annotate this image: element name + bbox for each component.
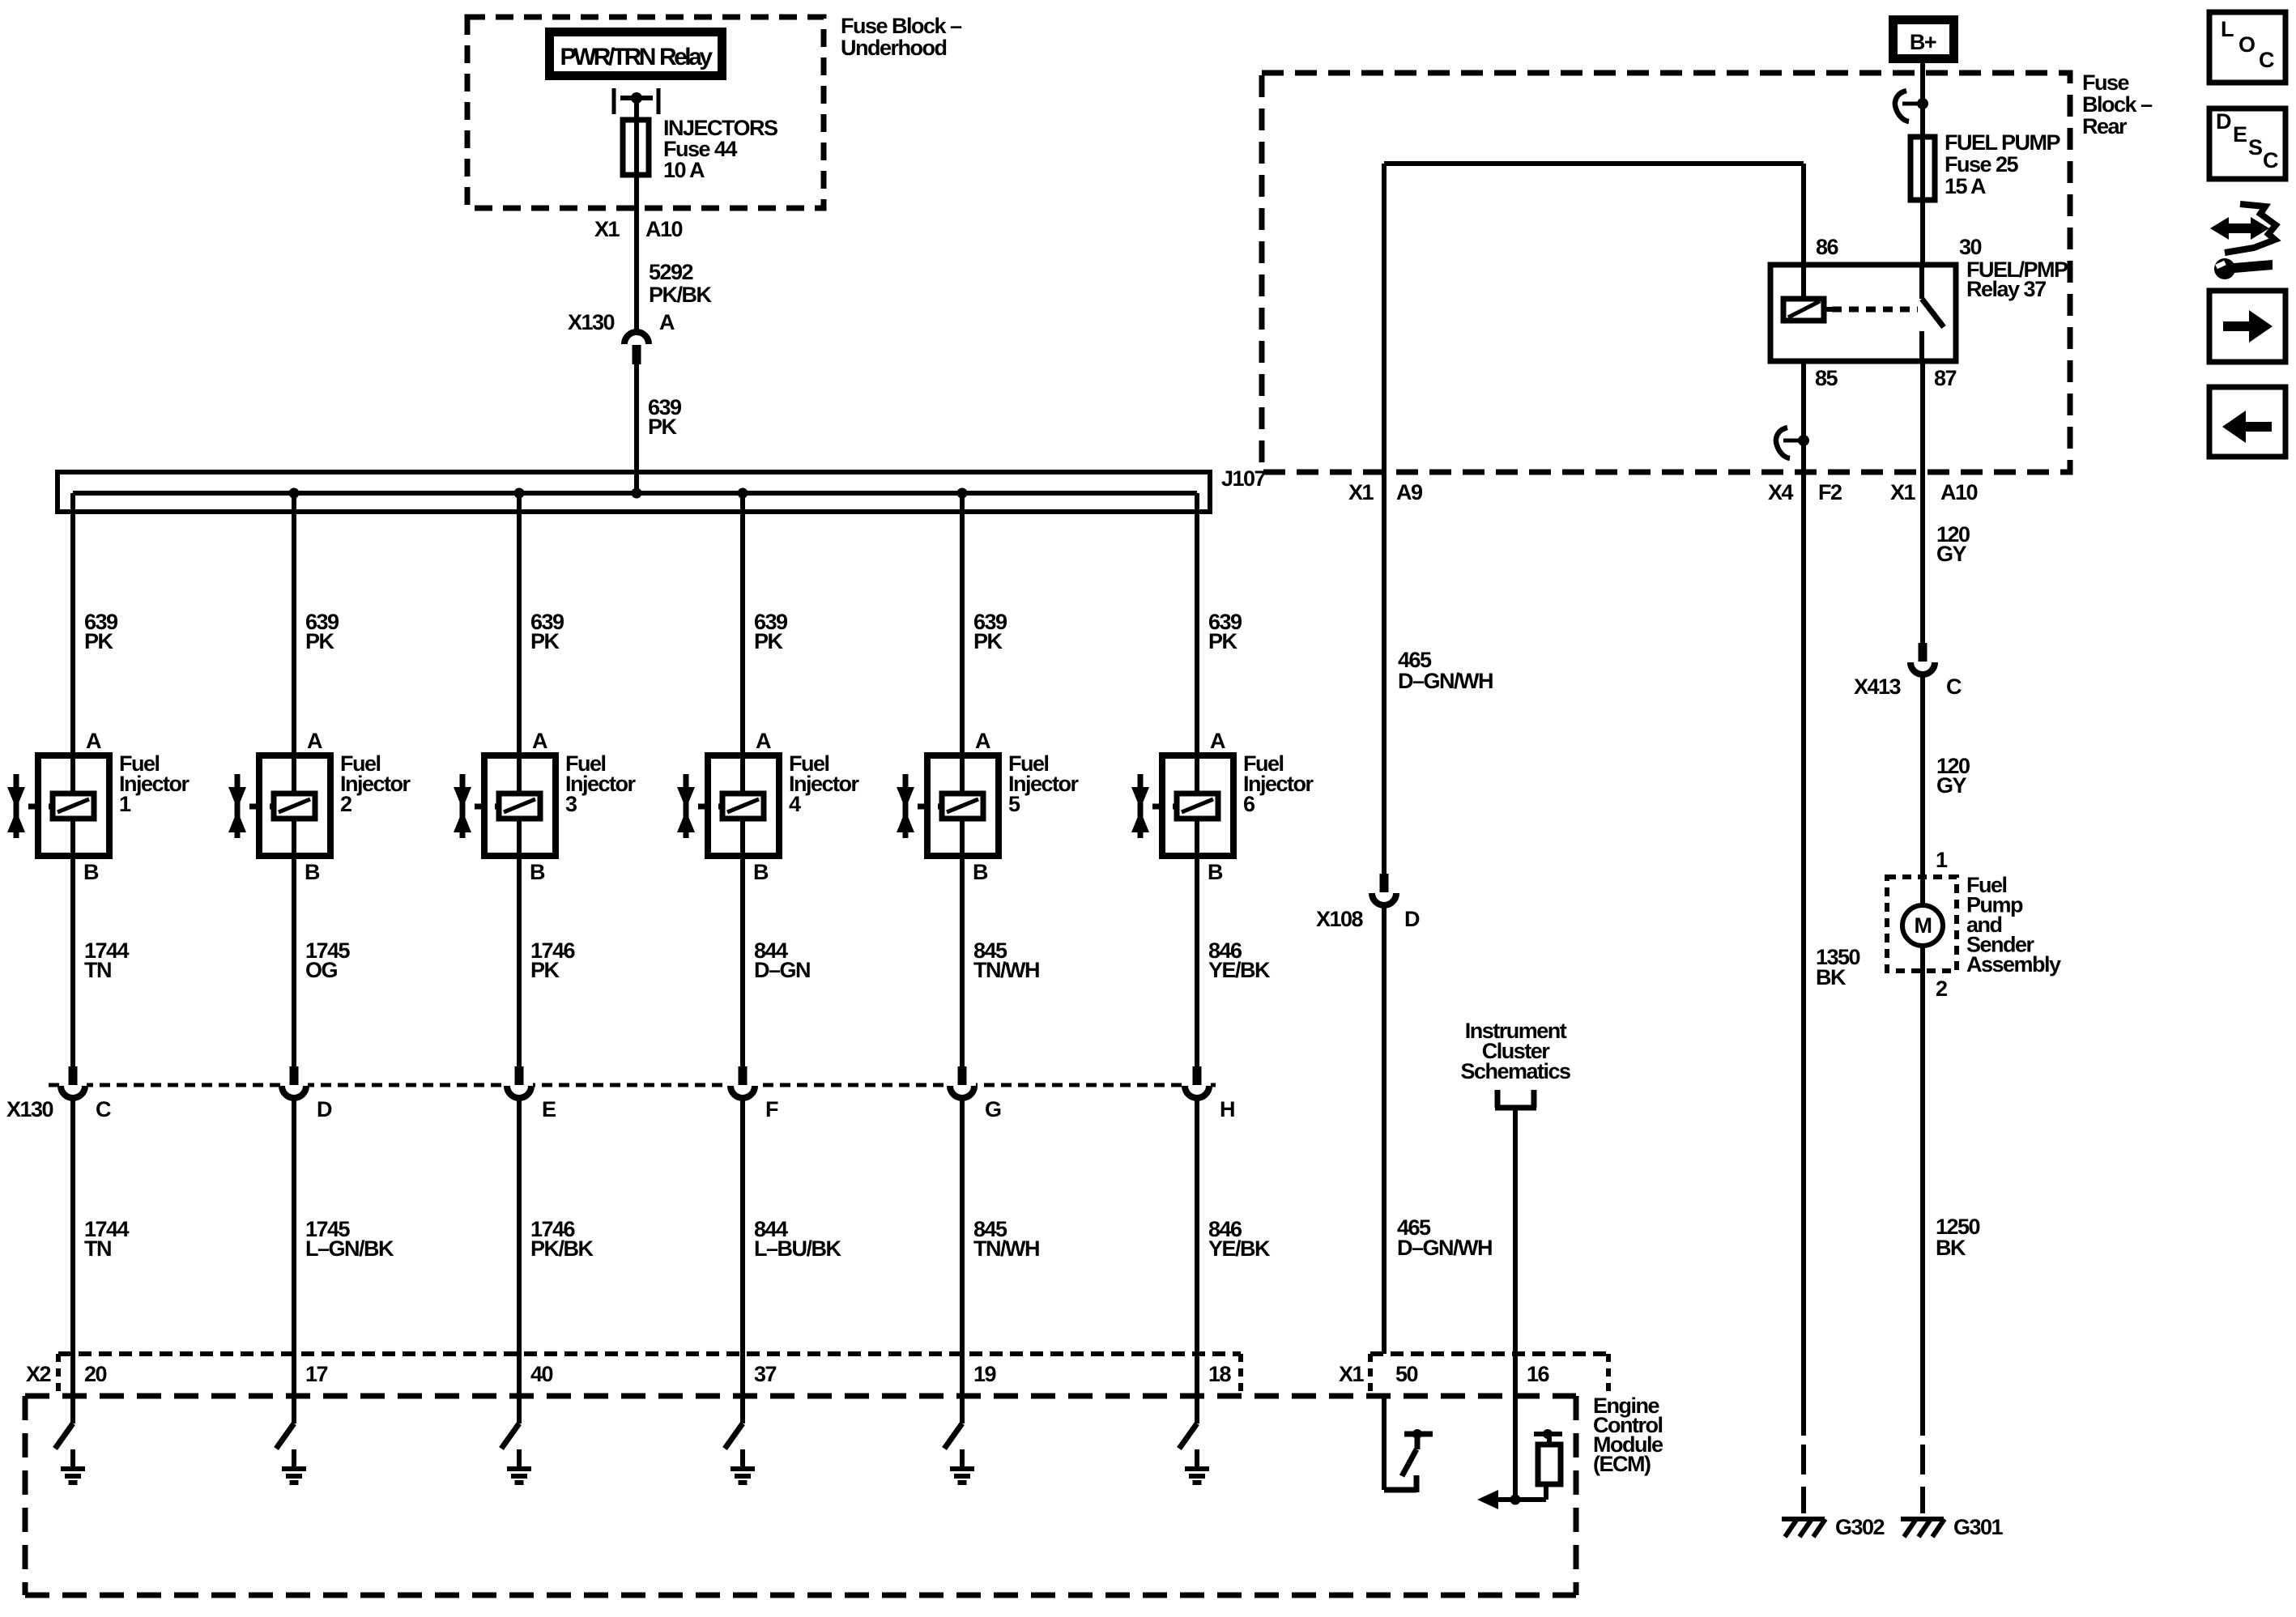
svg-text:B: B	[1208, 860, 1223, 884]
svg-text:B: B	[83, 860, 99, 884]
svg-text:B: B	[753, 860, 769, 884]
svg-text:30: 30	[1959, 235, 1982, 259]
svg-text:C: C	[96, 1097, 111, 1121]
svg-text:X130: X130	[6, 1097, 53, 1121]
svg-text:F2: F2	[1818, 480, 1842, 504]
svg-text:E: E	[542, 1097, 556, 1121]
svg-text:40: 40	[530, 1362, 553, 1386]
svg-text:120GY: 120GY	[1936, 522, 1970, 566]
svg-text:X130: X130	[568, 310, 615, 334]
svg-text:X4: X4	[1768, 480, 1794, 504]
svg-text:A: A	[86, 729, 101, 753]
svg-text:X2: X2	[26, 1362, 51, 1386]
svg-text:120GY: 120GY	[1936, 754, 1970, 798]
svg-text:G: G	[985, 1097, 1001, 1121]
svg-text:85: 85	[1815, 366, 1838, 390]
svg-text:G301: G301	[1953, 1515, 2004, 1539]
svg-text:E: E	[2233, 122, 2247, 147]
svg-text:M: M	[1915, 913, 1932, 938]
svg-text:F: F	[765, 1097, 778, 1121]
svg-text:B: B	[530, 860, 545, 884]
svg-text:X1: X1	[1339, 1362, 1365, 1386]
svg-text:X108: X108	[1316, 907, 1364, 931]
svg-text:1: 1	[1936, 848, 1948, 872]
svg-text:A9: A9	[1396, 480, 1423, 504]
svg-text:D: D	[1404, 907, 1420, 931]
svg-text:C: C	[2259, 48, 2274, 72]
svg-text:J107: J107	[1221, 466, 1266, 491]
svg-text:19: 19	[973, 1362, 997, 1386]
svg-text:O: O	[2238, 32, 2255, 57]
svg-text:20: 20	[84, 1362, 107, 1386]
svg-text:L: L	[2221, 17, 2234, 41]
svg-text:A10: A10	[645, 217, 683, 241]
svg-text:17: 17	[305, 1362, 328, 1386]
svg-text:PWR/TRNRelay: PWR/TRNRelay	[560, 44, 713, 70]
svg-text:A10: A10	[1940, 480, 1978, 504]
svg-text:Fuse Block –Underhood: Fuse Block –Underhood	[841, 14, 962, 60]
svg-text:37: 37	[754, 1362, 777, 1386]
svg-text:18: 18	[1208, 1362, 1232, 1386]
svg-text:C: C	[1946, 674, 1962, 699]
svg-text:C: C	[2263, 148, 2278, 172]
svg-text:50: 50	[1395, 1362, 1418, 1386]
svg-text:86: 86	[1816, 235, 1839, 259]
svg-text:S: S	[2248, 135, 2262, 160]
svg-text:X413: X413	[1854, 674, 1902, 699]
svg-text:B+: B+	[1910, 30, 1936, 54]
svg-text:A: A	[756, 729, 771, 753]
svg-text:G302: G302	[1835, 1515, 1885, 1539]
svg-text:D: D	[2216, 109, 2231, 134]
svg-text:H: H	[1220, 1097, 1234, 1121]
svg-text:16: 16	[1527, 1362, 1550, 1386]
svg-text:D: D	[317, 1097, 332, 1121]
svg-text:87: 87	[1934, 366, 1957, 390]
svg-text:X1: X1	[1890, 480, 1916, 504]
svg-text:X1: X1	[594, 217, 620, 241]
svg-text:A: A	[532, 729, 547, 753]
svg-text:A: A	[659, 310, 675, 334]
svg-text:B: B	[305, 860, 320, 884]
svg-text:A: A	[307, 729, 322, 753]
svg-text:X1: X1	[1348, 480, 1374, 504]
svg-text:A: A	[975, 729, 990, 753]
svg-text:A: A	[1210, 729, 1225, 753]
svg-text:B: B	[973, 860, 988, 884]
svg-text:2: 2	[1936, 977, 1947, 1001]
